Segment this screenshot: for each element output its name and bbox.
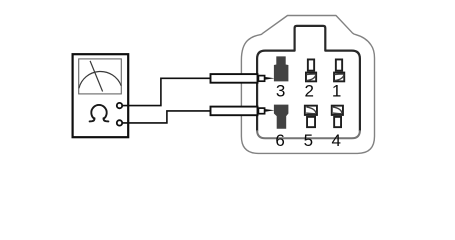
meter display bbox=[79, 59, 122, 94]
wire A (top terminal to probe A) bbox=[122, 78, 210, 105]
probe A bbox=[211, 74, 275, 83]
meter scale arc bbox=[79, 71, 121, 88]
svg-text:4: 4 bbox=[331, 131, 340, 150]
pin 4 bbox=[332, 106, 343, 128]
connector outer housing bbox=[241, 16, 374, 154]
svg-text:2: 2 bbox=[304, 82, 313, 101]
multimeter body bbox=[73, 54, 129, 137]
wire B (bottom terminal to probe B) bbox=[122, 111, 210, 123]
ohm symbol bbox=[90, 105, 109, 121]
pin 5 bbox=[305, 106, 317, 128]
pin 1 bbox=[334, 59, 344, 81]
pin 6 (filled) bbox=[274, 105, 289, 129]
svg-text:6: 6 bbox=[275, 131, 284, 150]
pin 3 (filled) bbox=[274, 56, 289, 81]
svg-text:3: 3 bbox=[276, 82, 285, 101]
terminal jack B bbox=[117, 120, 122, 125]
svg-text:5: 5 bbox=[304, 131, 313, 150]
svg-text:1: 1 bbox=[332, 82, 341, 101]
pin 2 bbox=[306, 59, 316, 81]
meter needle bbox=[90, 61, 103, 92]
terminal jack A bbox=[117, 103, 122, 108]
connector inner cavity with key tab bbox=[257, 26, 360, 138]
probe B bbox=[211, 107, 275, 116]
